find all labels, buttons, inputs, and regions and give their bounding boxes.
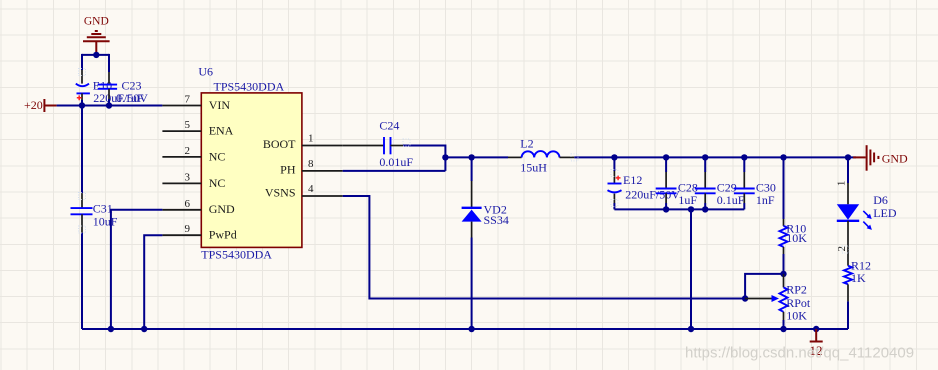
wire: E10 top vertical <box>81 54 83 70</box>
wire: GND top horizontal <box>82 54 109 56</box>
capacitor C29 <box>695 157 716 209</box>
inductor L2 <box>508 151 574 157</box>
wire: VSNS down and across <box>343 196 745 299</box>
pin 1 BOOT <box>263 133 343 152</box>
svg-text:GND: GND <box>882 152 908 166</box>
junction: C30 <box>741 154 747 160</box>
svg-text:1uF: 1uF <box>678 193 697 207</box>
wire: C23 bottom lead <box>108 99 110 106</box>
power port 12 (bottom bar port) <box>810 329 823 358</box>
svg-text:SS34: SS34 <box>484 213 509 227</box>
svg-text:ENA: ENA <box>209 124 234 138</box>
svg-text:1nF: 1nF <box>756 193 775 207</box>
svg-text:RP2: RP2 <box>786 283 807 297</box>
svg-text:1: 1 <box>308 133 314 145</box>
svg-text:4: 4 <box>308 183 314 195</box>
svg-text:1K: 1K <box>851 271 866 285</box>
svg-text:C24: C24 <box>379 118 399 132</box>
ground power port GND (right) <box>853 145 878 171</box>
svg-text:D6: D6 <box>873 193 888 207</box>
junction: C23 on rail <box>106 102 112 108</box>
svg-text:0.1uF: 0.1uF <box>116 91 144 105</box>
junction: E10 on rail <box>79 102 85 108</box>
svg-text:GND: GND <box>209 202 235 216</box>
svg-text:0.01uF: 0.01uF <box>379 155 413 169</box>
junction: GND stem <box>93 52 99 58</box>
wire: PH to corner <box>343 170 446 172</box>
junction: E12 <box>611 154 617 160</box>
wire: BOOT/PH vertical link <box>444 145 446 171</box>
junction: bus drop <box>688 206 694 212</box>
capacitor C24 <box>343 137 403 154</box>
svg-text:VSNS: VSNS <box>265 186 296 200</box>
junction: C28 <box>663 154 669 160</box>
svg-text:1: 1 <box>836 181 848 187</box>
svg-text:https://blog.csdn.net/qq_41120: https://blog.csdn.net/qq_41120409 <box>685 345 914 362</box>
hotspot markers (pale dotted pin-end indicators) <box>79 69 850 254</box>
capacitor C31 <box>71 193 93 233</box>
junction: D6 <box>845 154 851 160</box>
svg-text:8: 8 <box>308 158 314 170</box>
svg-text:NC: NC <box>209 176 226 190</box>
capacitor C30 <box>734 157 755 209</box>
svg-text:E12: E12 <box>623 173 642 187</box>
wire: bus drop to bottom rail <box>690 209 692 329</box>
resistor R10 <box>780 157 788 274</box>
junction: cap bus drop bottom <box>688 326 694 332</box>
junction: RP2 bottom <box>780 326 786 332</box>
svg-text:VIN: VIN <box>209 98 231 112</box>
pin 3 NC <box>162 171 225 189</box>
capacitor C28 <box>656 157 677 209</box>
svg-text:3: 3 <box>185 171 191 183</box>
svg-text:0.1uF: 0.1uF <box>717 193 745 207</box>
junction: bottom port <box>813 326 819 332</box>
junction: R10/RP2 <box>780 271 786 277</box>
potentiometer RP2 <box>745 274 787 329</box>
svg-text:BOOT: BOOT <box>263 137 296 151</box>
junction: GND pin drop <box>108 326 114 332</box>
svg-text:GND: GND <box>84 16 109 28</box>
op-amp U1: IC body U6 TPS5430DDA <box>201 93 302 248</box>
svg-text:10uF: 10uF <box>93 214 118 228</box>
svg-text:10K: 10K <box>786 231 807 245</box>
capacitor C23 <box>98 72 117 100</box>
svg-text:+20: +20 <box>24 98 43 112</box>
wire: capacitor bottom bus <box>614 208 744 210</box>
pin 8 PH <box>280 158 343 177</box>
wire: +20 rail to VIN <box>57 105 163 107</box>
svg-text:9: 9 <box>185 223 191 235</box>
bottom rail wire <box>82 328 848 330</box>
junction: VD2 bottom <box>468 326 474 332</box>
svg-text:L2: L2 <box>520 137 533 151</box>
wire: C23 top vertical <box>108 54 110 72</box>
svg-text:2: 2 <box>185 145 191 157</box>
pin 9 PwPd <box>162 223 236 241</box>
wire: C31 bottom to bottom rail <box>81 233 83 329</box>
junction: R10 <box>780 154 786 160</box>
resistor R12 <box>844 266 852 329</box>
svg-text:U6: U6 <box>198 65 213 79</box>
svg-text:NC: NC <box>209 149 226 163</box>
wire: C24 to corner <box>403 145 445 147</box>
wire: E10 bottom lead <box>81 100 83 106</box>
junction: PwPd drop <box>141 326 147 332</box>
svg-text:15uH: 15uH <box>520 160 547 174</box>
wire: +20 vertical down to C31 <box>81 106 83 194</box>
junction: C29 bottom <box>702 206 708 212</box>
wire: output rail left part <box>445 156 508 158</box>
wire: R10 bottom to wiper loop <box>745 274 783 299</box>
svg-text:TPS5430DDA: TPS5430DDA <box>201 248 272 262</box>
svg-text:6: 6 <box>185 198 191 210</box>
junction: C28 bottom <box>663 206 669 212</box>
pin 6 GND <box>162 198 235 216</box>
diode VD2 <box>462 157 482 329</box>
svg-text:PH: PH <box>280 163 296 177</box>
capacitor E12 (electrolytic) <box>608 157 622 209</box>
LED D6 <box>837 157 872 265</box>
capacitor E10 <box>76 70 90 101</box>
junction: wiper node <box>742 295 748 301</box>
junction: output tee <box>442 154 448 160</box>
svg-text:TPS5430DDA: TPS5430DDA <box>214 79 285 93</box>
junction: VD2 tap <box>468 154 474 160</box>
ground power port GND (top left) <box>83 31 110 55</box>
wire: GND pin to rail <box>111 210 162 329</box>
power port +20 <box>24 98 57 112</box>
svg-text:PwPd: PwPd <box>209 228 237 242</box>
pin 5 ENA <box>162 119 233 137</box>
svg-text:LED: LED <box>873 206 897 220</box>
junction: C29 <box>702 154 708 160</box>
pin 2 NC <box>162 145 225 163</box>
svg-text:10K: 10K <box>786 308 807 322</box>
svg-text:7: 7 <box>185 94 191 106</box>
wire: PwPd pin to rail <box>144 235 162 329</box>
wire: output rail right part <box>574 156 856 158</box>
pin 7 VIN <box>162 94 230 112</box>
svg-text:5: 5 <box>185 119 191 131</box>
pin 4 VSNS <box>265 183 343 200</box>
